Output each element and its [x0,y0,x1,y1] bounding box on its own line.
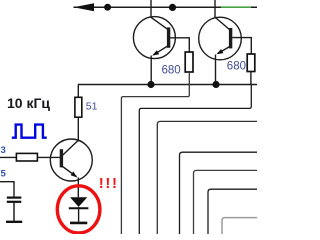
wire L1 from R2 stub down, left, down [139,85,251,235]
arrow on top rail [74,3,95,11]
wire emitter rail A [78,84,257,86]
wire R2 bottom stub [250,72,252,85]
wire R51 top corner [77,85,79,98]
svg-text:51: 51 [86,100,98,112]
wire Q2 collector stem [214,0,216,18]
wire Q1 base [170,38,189,52]
wire L5 corner [208,189,257,234]
resistor R1 680 [185,52,193,72]
wire Q1 collector stem [150,0,152,18]
svg-text:!!!: !!! [99,175,119,192]
signal waveform 10kHz (blue) [12,125,47,138]
resistor R2 680 [247,54,255,72]
wire Q2 base [232,38,251,54]
resistor R3 horizontal [16,153,37,161]
svg-text:680: 680 [162,65,181,77]
wire L4 corner [194,170,258,234]
wire pin5 to capacitor [0,182,14,197]
wire R51 bottom to Q3 collector [77,117,79,141]
wire L6 corner gray [222,218,257,234]
svg-text:5: 5 [1,169,7,180]
wire top rail [74,6,258,8]
green wire segment [221,6,251,8]
wire resistor to Q3 base [37,156,59,158]
node junction dot top-left [104,4,111,11]
wire pin3 to resistor [0,156,16,158]
wire L0 resistor R1 stub down, left, down [121,72,189,234]
resistor R51 [75,97,82,117]
svg-text:680: 680 [227,61,246,73]
wire L3 corner [180,152,258,234]
node junction dot top-mid [169,4,176,11]
capacitor C1 [6,198,22,222]
wire L2 corner [157,121,257,234]
diode VD (to ground) [69,197,89,223]
svg-text:3: 3 [1,145,6,156]
svg-text:10 кГц: 10 кГц [7,95,50,111]
transistor Q1 [133,17,175,85]
node dot Q1 emitter [147,81,154,88]
transistor Q3 [50,139,92,197]
node dot Q2 emitter [212,81,219,88]
red highlight ellipse [57,186,100,233]
transistor Q2 [199,17,242,84]
